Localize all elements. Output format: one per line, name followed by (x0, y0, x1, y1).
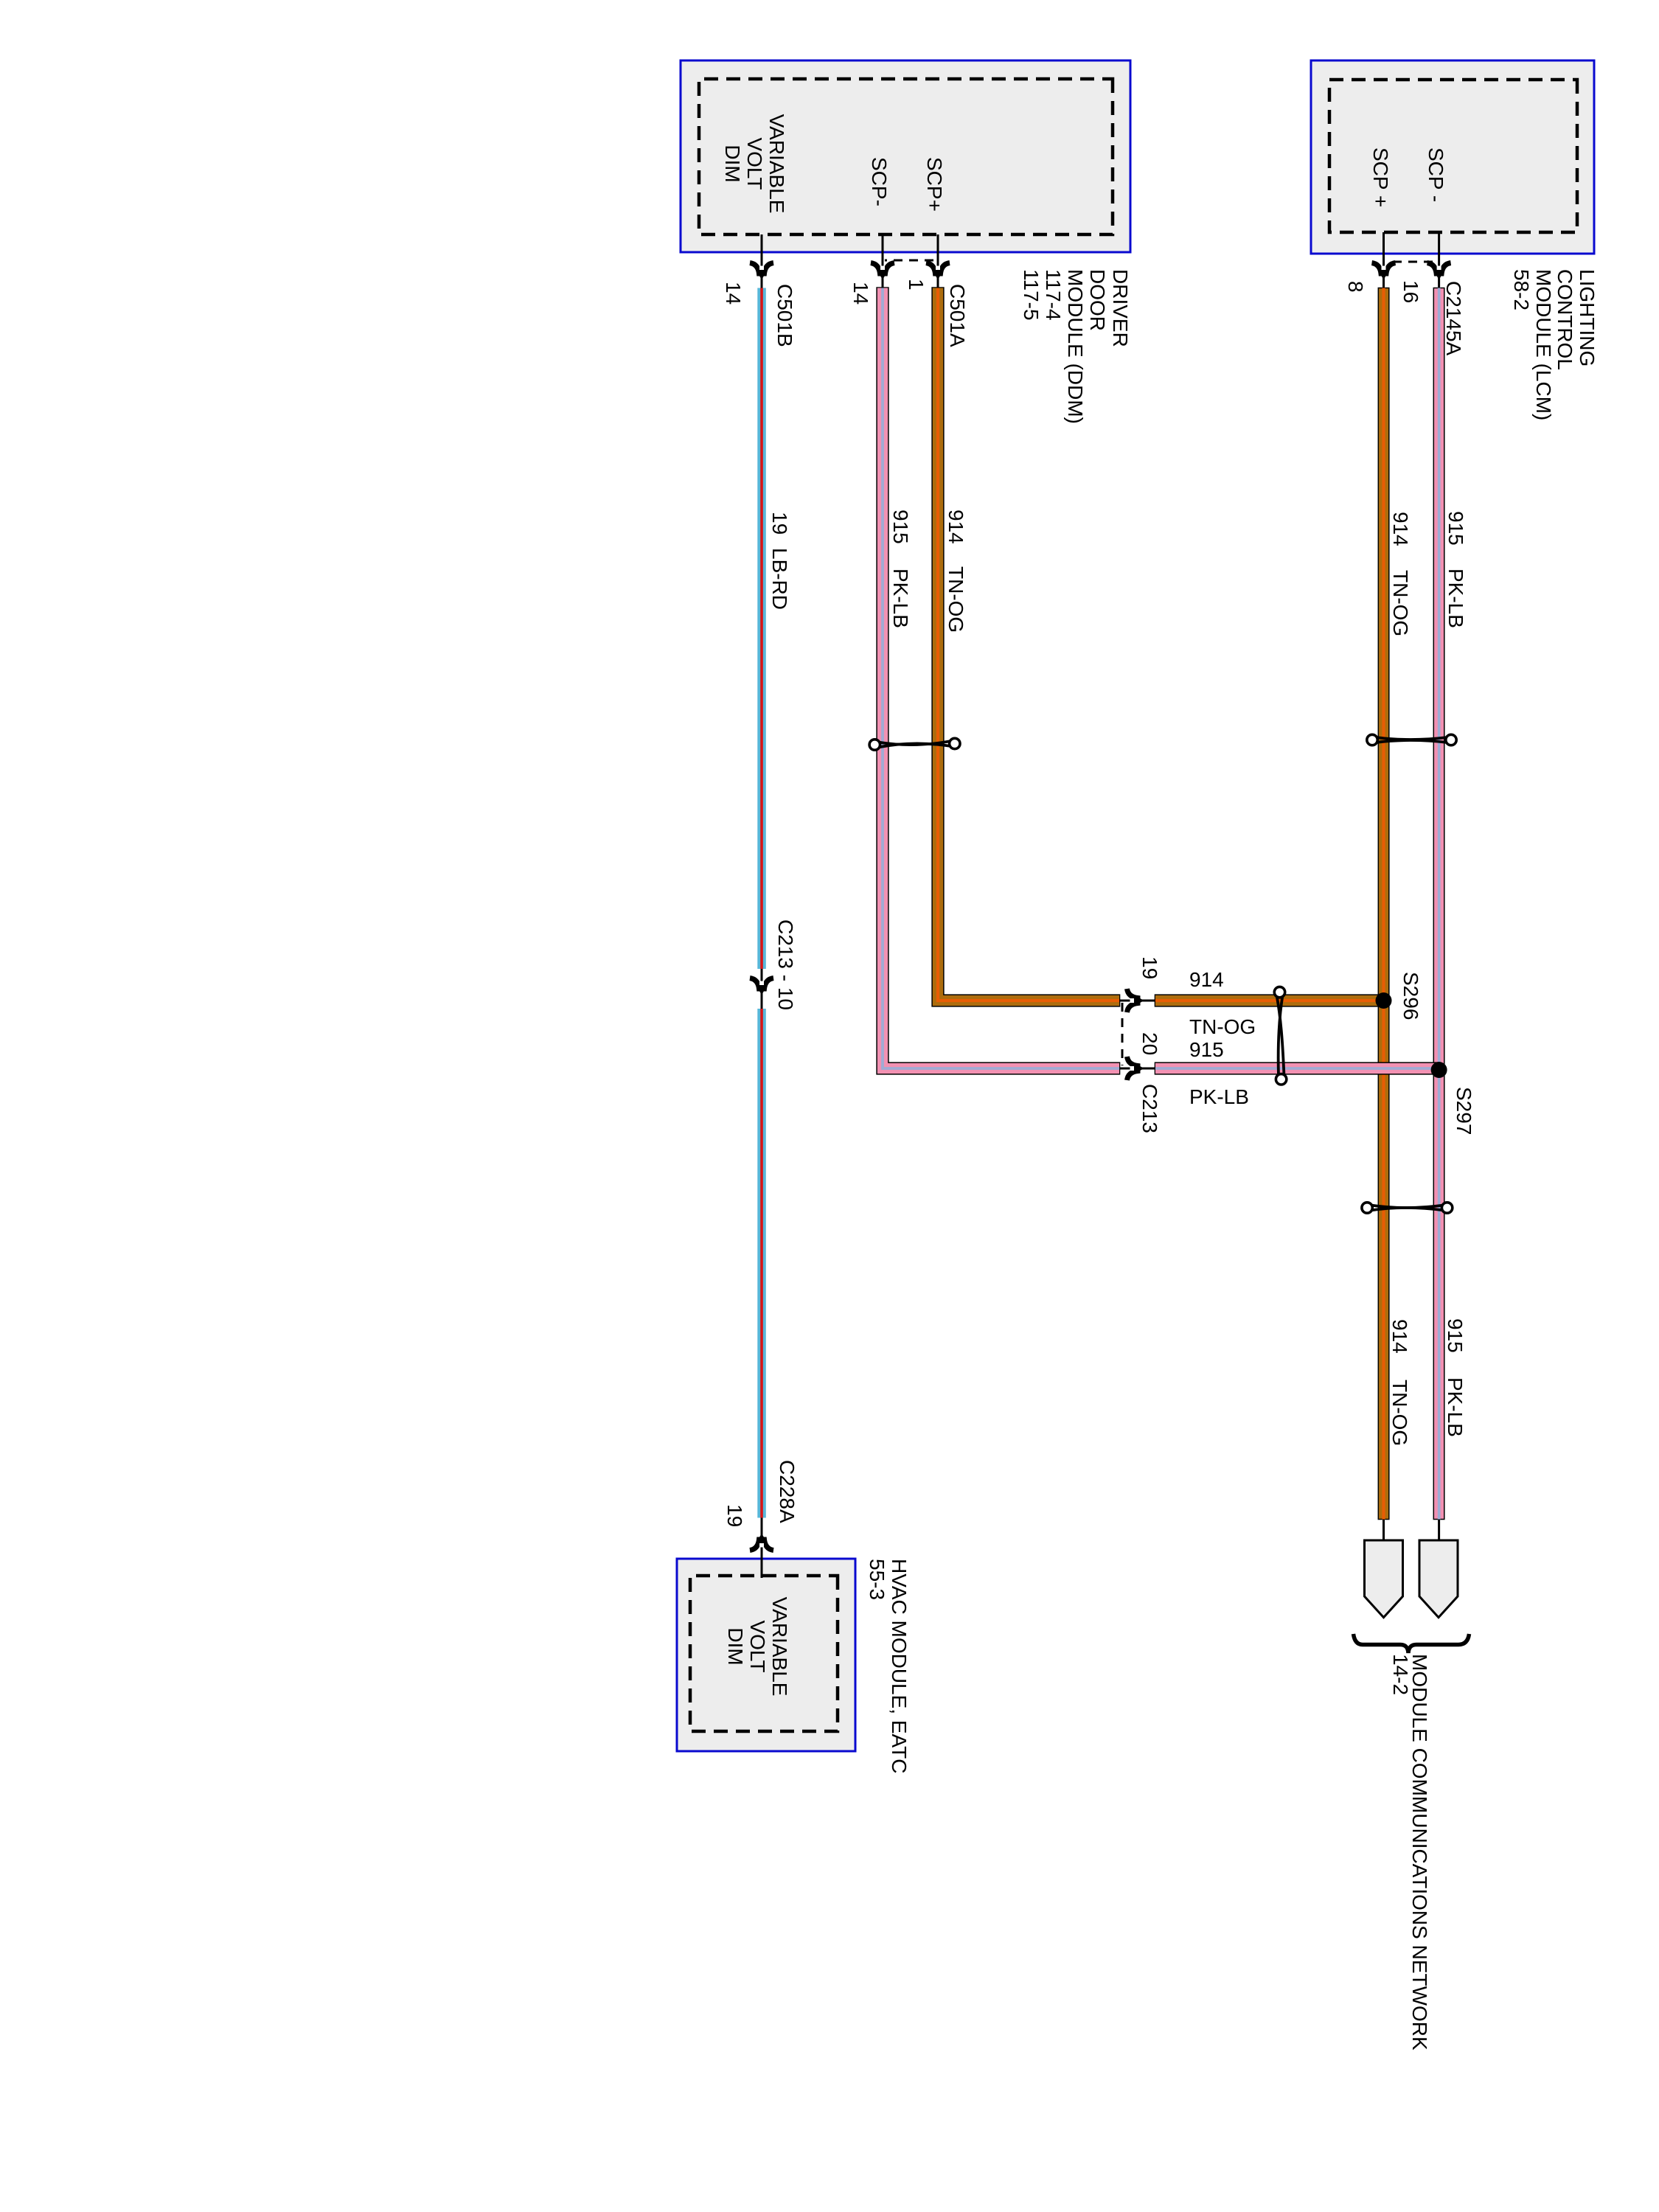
wire stub DDM SCP+ (937, 234, 939, 288)
svg-text:VARIABLE: VARIABLE (765, 114, 788, 214)
connector arrow C213 914 (1127, 989, 1144, 1012)
wire gap stub C213-10 (761, 969, 763, 1009)
wire gap stub C213 (914) (1119, 1000, 1155, 1002)
svg-text:SCP -: SCP - (1425, 147, 1447, 202)
off-page arrow PK-LB (1419, 1540, 1458, 1618)
module HVAC box (677, 1559, 855, 1751)
connector arrow C213-10 (750, 978, 773, 995)
svg-text:VOLT: VOLT (743, 137, 766, 189)
module LCM box (1311, 60, 1594, 254)
connector arrow DDM SCP- (871, 263, 894, 280)
svg-text:PK-LB: PK-LB (1189, 1085, 1249, 1108)
wire label 914 TN-OG upper main (1389, 512, 1412, 636)
twisted pair symbol on branch pair at junction (1274, 987, 1287, 1085)
wire label 915 PK-LB branch (889, 509, 912, 628)
svg-text:DRIVER: DRIVER (1109, 269, 1132, 347)
svg-text:TN-OG: TN-OG (945, 566, 967, 633)
wire stub off-page TN-OG (1382, 1520, 1385, 1541)
svg-text:S296: S296 (1399, 972, 1422, 1020)
connector dashed bracket C213 (1121, 1003, 1124, 1065)
wire 914 TN-OG branch upper (C213 to S296) (1155, 994, 1384, 1006)
svg-text:20: 20 (1138, 1032, 1161, 1055)
pin VARIABLE VOLT DIM (HVAC) (724, 1597, 791, 1697)
label LCM name (1510, 269, 1599, 420)
connector arrow LCM SCP- (1427, 263, 1451, 280)
svg-text:PK-LB: PK-LB (1444, 568, 1467, 628)
splice S297 (1431, 1062, 1447, 1078)
off-page arrow TN-OG (1365, 1540, 1403, 1618)
svg-text:915: 915 (1189, 1038, 1224, 1061)
svg-text:14-2: 14-2 (1389, 1654, 1412, 1695)
svg-text:8: 8 (1344, 281, 1367, 293)
svg-text:19: 19 (768, 512, 791, 535)
svg-text:C213: C213 (1138, 1084, 1161, 1133)
svg-text:915: 915 (889, 509, 912, 544)
wire label 915 PK-LB upper main (1444, 511, 1467, 628)
svg-text:TN-OG: TN-OG (1388, 1380, 1411, 1446)
wire gap stub C213 (915) (1119, 1068, 1155, 1070)
pin VARIABLE VOLT DIM (DDM) (721, 114, 788, 214)
svg-text:MODULE (DDM): MODULE (DDM) (1064, 269, 1087, 424)
connector dashed bracket C2145A (1393, 261, 1433, 263)
svg-text:914: 914 (1189, 968, 1224, 991)
wire label 915 PK-LB lower main (1444, 1318, 1467, 1437)
svg-text:914: 914 (945, 509, 967, 544)
svg-text:PK-LB: PK-LB (889, 568, 912, 628)
svg-text:915: 915 (1444, 1318, 1467, 1353)
wire label 19 LB-RD (768, 512, 791, 610)
svg-text:DIM: DIM (721, 145, 744, 182)
wire stub DDM SCP- (882, 234, 884, 288)
brace (1354, 1634, 1470, 1653)
svg-text:VARIABLE: VARIABLE (768, 1597, 791, 1697)
svg-text:S297: S297 (1453, 1087, 1475, 1135)
svg-text:914: 914 (1389, 512, 1412, 546)
wire 914 TN-OG branch lower (DDM SCP+ to C213) (938, 287, 1120, 1001)
connector arrow DDM SCP+ (926, 263, 950, 280)
svg-text:14: 14 (722, 282, 745, 305)
label HVAC name (866, 1559, 911, 1773)
connector arrow DDM pin14 (750, 263, 773, 280)
wire 914 TN-OG main (LCM to off-page) (1378, 288, 1389, 1520)
svg-text:C228A: C228A (776, 1460, 799, 1523)
svg-text:SCP +: SCP + (1369, 147, 1392, 207)
svg-text:58-2: 58-2 (1510, 269, 1533, 310)
twisted pair symbol on main pair near splices (1362, 1203, 1453, 1213)
wire stub DDM VARIABLE VOLT DIM (761, 234, 763, 288)
twisted pair symbol on branch pair near DDM (869, 738, 960, 750)
svg-text:TN-OG: TN-OG (1189, 1015, 1256, 1038)
wire label 914 TN-OG lower main (1388, 1319, 1411, 1446)
wire 915 PK-LB branch lower (DDM SCP- to C213) (883, 287, 1120, 1068)
svg-text:DOOR: DOOR (1086, 269, 1109, 331)
wire 19 LB-RD left segment (DDM to C213-10) (757, 288, 766, 970)
label DDM name (1020, 269, 1132, 424)
svg-text:CONTROL: CONTROL (1554, 269, 1576, 370)
connector arrow C228A (750, 1534, 773, 1551)
svg-text:LIGHTING: LIGHTING (1576, 269, 1599, 366)
wire 19 LB-RD right segment (C213-10 to HVAC) (757, 1009, 766, 1518)
svg-text:117-4: 117-4 (1042, 269, 1065, 321)
svg-text:HVAC MODULE, EATC: HVAC MODULE, EATC (888, 1559, 911, 1773)
wire 915 PK-LB main (LCM to off-page) (1433, 288, 1444, 1520)
svg-text:915: 915 (1444, 511, 1467, 546)
svg-text:SCP-: SCP- (868, 157, 891, 206)
svg-text:C501B: C501B (773, 284, 796, 347)
svg-text:16: 16 (1399, 280, 1422, 303)
svg-text:MODULE (LCM): MODULE (LCM) (1532, 269, 1555, 420)
connector arrow C213 915 (1127, 1057, 1144, 1080)
module DDM box (681, 60, 1130, 252)
svg-text:117-5: 117-5 (1020, 269, 1043, 321)
wire stub off-page PK-LB (1438, 1520, 1440, 1541)
svg-text:1: 1 (905, 279, 928, 291)
svg-text:PK-LB: PK-LB (1444, 1377, 1467, 1437)
label MODULE COMMUNICATIONS NETWORK (1389, 1654, 1431, 2051)
svg-text:VOLT: VOLT (746, 1620, 769, 1672)
svg-text:19: 19 (723, 1504, 746, 1527)
svg-text:TN-OG: TN-OG (1389, 570, 1412, 636)
svg-text:DIM: DIM (724, 1627, 747, 1665)
svg-text:14: 14 (849, 282, 872, 305)
connector arrow LCM SCP+ (1372, 263, 1396, 280)
wire 915 PK-LB branch upper (C213 to S297) (1155, 1062, 1439, 1074)
svg-text:C213 - 10: C213 - 10 (774, 919, 797, 1010)
wire stub LCM SCP+ (1382, 232, 1385, 288)
svg-text:LB-RD: LB-RD (768, 548, 791, 610)
wire label 914 TN-OG branch (945, 509, 967, 633)
svg-text:19: 19 (1138, 956, 1161, 979)
splice S296 (1376, 992, 1392, 1009)
twisted pair symbol on main pair near LCM (1367, 734, 1456, 745)
wire stub LCM SCP- (1438, 232, 1440, 288)
svg-text:C2145A: C2145A (1442, 281, 1465, 356)
svg-text:55-3: 55-3 (866, 1559, 888, 1600)
svg-text:MODULE COMMUNICATIONS NETWORK: MODULE COMMUNICATIONS NETWORK (1408, 1654, 1431, 2051)
wire stub HVAC C228A (761, 1518, 763, 1579)
connector dashed bracket C501A (885, 260, 933, 262)
svg-text:C501A: C501A (946, 284, 969, 347)
svg-text:SCP+: SCP+ (923, 157, 946, 212)
svg-text:914: 914 (1388, 1319, 1411, 1354)
